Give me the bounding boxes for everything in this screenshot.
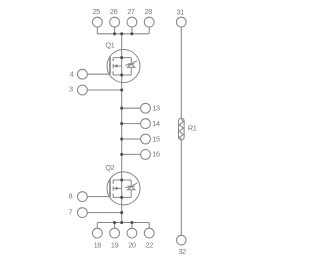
svg-text:16: 16 [152,150,160,159]
svg-text:Q1: Q1 [105,41,114,50]
svg-text:13: 13 [152,104,160,113]
svg-text:31: 31 [177,7,185,16]
svg-text:20: 20 [128,240,136,249]
svg-text:4: 4 [70,69,74,78]
svg-text:25: 25 [93,7,101,16]
svg-text:26: 26 [110,7,118,16]
svg-text:22: 22 [146,240,154,249]
svg-text:7: 7 [69,208,73,217]
svg-text:Q2: Q2 [105,163,114,172]
svg-text:32: 32 [178,247,186,256]
svg-text:8: 8 [69,191,73,200]
svg-text:3: 3 [69,85,73,94]
svg-text:19: 19 [111,240,119,249]
svg-text:R1: R1 [188,124,197,133]
svg-text:15: 15 [152,134,160,143]
svg-text:14: 14 [152,119,160,128]
svg-text:28: 28 [145,7,153,16]
svg-text:18: 18 [94,240,102,249]
svg-text:27: 27 [127,7,135,16]
